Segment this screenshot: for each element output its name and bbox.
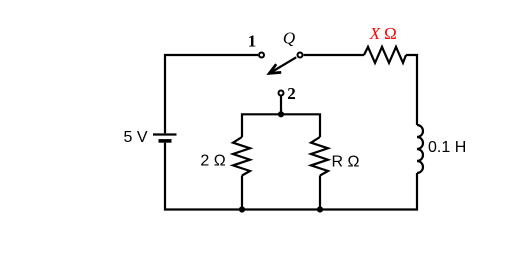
svg-text:R Ω: R Ω xyxy=(332,153,360,170)
resistor R1 2-ohm zigzag xyxy=(233,137,250,176)
resistor R2 R-ohm zigzag xyxy=(311,137,328,176)
wire left lower, bottom and right lower segments xyxy=(165,143,417,210)
wire from switch Q to resistor X xyxy=(304,54,364,56)
inductor L1 coil xyxy=(417,125,423,173)
wire parallel box top xyxy=(242,114,320,137)
battery V1 bottom plate xyxy=(159,139,172,143)
switch terminal Q pivot circle xyxy=(298,53,303,58)
wire top-left and left upper segment xyxy=(165,55,258,133)
svg-text:Q: Q xyxy=(283,28,295,47)
svg-text:Ω: Ω xyxy=(384,24,397,43)
wire 2-ohm branch lower stub xyxy=(241,176,243,210)
switch Q blade arrowhead xyxy=(269,64,281,73)
battery V1 top plate xyxy=(153,133,177,135)
svg-text:5 V: 5 V xyxy=(123,129,147,146)
node dot bottom left junction xyxy=(239,206,245,212)
svg-text:X: X xyxy=(369,24,381,43)
wire terminal 2 to parallel node xyxy=(280,96,282,114)
switch terminal 2 circle xyxy=(279,91,284,96)
svg-text:0.1 H: 0.1 H xyxy=(428,139,466,156)
node dot bottom right junction xyxy=(317,206,323,212)
wire right upper segment xyxy=(406,55,417,125)
node dot at parallel top xyxy=(278,111,284,117)
switch terminal 1 circle xyxy=(259,53,264,58)
resistor X zigzag xyxy=(364,47,406,63)
svg-text:1: 1 xyxy=(248,32,257,51)
wire R-ohm branch lower stub xyxy=(319,176,321,210)
svg-text:2 Ω: 2 Ω xyxy=(200,153,225,170)
svg-text:2: 2 xyxy=(287,84,296,103)
switch Q blade xyxy=(271,57,296,72)
